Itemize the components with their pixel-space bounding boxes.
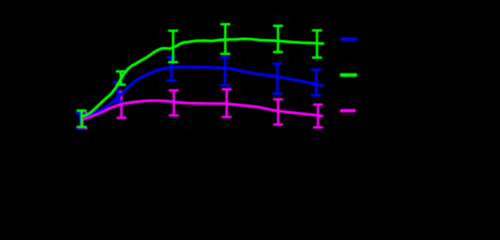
magenta curve xyxy=(83,101,323,120)
green error bar 6 xyxy=(312,30,322,57)
magenta error bar 3 xyxy=(169,90,179,115)
magenta error bar 1 xyxy=(78,113,88,128)
green error bar 1 xyxy=(77,111,87,127)
blue error bar 1 xyxy=(75,113,85,127)
green error bar 2 xyxy=(116,71,126,84)
legend entry 2: green line sample xyxy=(340,73,357,76)
green curve xyxy=(82,39,323,117)
blue error bar 3 xyxy=(166,57,176,80)
magenta error bar 4 xyxy=(222,89,232,117)
blue error bar 2 xyxy=(113,82,123,101)
legend entry 3: magenta line sample xyxy=(340,109,356,112)
magenta series (series 3) xyxy=(78,89,324,128)
blue error bar 5 xyxy=(272,64,282,94)
green series (series 2) xyxy=(77,24,323,127)
green error bar 3 xyxy=(168,31,178,63)
blue error bar 4 xyxy=(220,57,230,85)
magenta error bar 5 xyxy=(273,99,283,124)
green error bar 5 xyxy=(273,26,283,52)
legend entry 1: blue line sample xyxy=(340,38,357,41)
blue curve xyxy=(80,67,323,118)
blue series (series 1) xyxy=(75,57,323,128)
blue error bar 6 xyxy=(311,70,321,96)
green error bar 4 xyxy=(220,24,230,54)
magenta error bar 6 xyxy=(313,105,323,128)
magenta error bar 2 xyxy=(116,92,126,118)
